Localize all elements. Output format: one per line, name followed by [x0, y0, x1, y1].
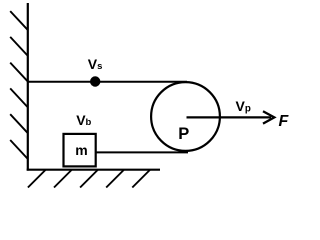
arrow F head	[263, 111, 274, 123]
svg-text:F: F	[279, 113, 290, 130]
wall	[27, 3, 29, 171]
floor hatch 5	[132, 170, 150, 188]
wall hatch 3	[10, 63, 27, 82]
svg-text:m: m	[75, 142, 87, 158]
floor hatch 2	[54, 170, 72, 188]
floor hatch 1	[28, 170, 46, 188]
node Vs dot	[90, 76, 100, 86]
wall hatch 2	[10, 37, 27, 56]
floor hatch 4	[106, 170, 124, 188]
arrow F shaft	[187, 116, 272, 118]
floor	[27, 169, 160, 171]
floor hatch 3	[80, 170, 98, 188]
wall hatch 4	[10, 88, 27, 107]
wall hatch 1	[10, 11, 27, 30]
svg-text:P: P	[178, 125, 189, 143]
wire lower rope	[97, 151, 189, 153]
wall hatch 5	[10, 114, 27, 133]
wall hatch 6	[10, 140, 27, 159]
wire upper rope	[27, 81, 187, 83]
block m	[64, 134, 96, 167]
pulley P	[151, 82, 220, 151]
